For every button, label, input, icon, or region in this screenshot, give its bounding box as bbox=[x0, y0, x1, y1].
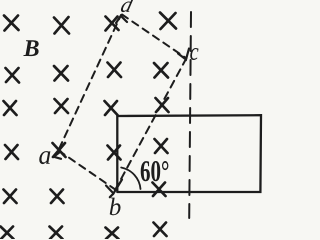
dashed side a-d bbox=[59, 15, 121, 149]
field cross row6 col4 bbox=[154, 223, 167, 237]
field cross row4 col4 bbox=[155, 139, 168, 153]
arrowhead at a bbox=[54, 152, 61, 159]
field cross row3 col1 bbox=[4, 101, 17, 115]
field cross row2 col1 bbox=[6, 68, 20, 83]
arrowhead at d bbox=[116, 16, 127, 23]
field cross row2 col2 bbox=[54, 66, 68, 81]
field cross row1 col3 bbox=[106, 17, 119, 31]
field cross row1 col4 bbox=[160, 13, 176, 30]
field cross row6 col1 bbox=[1, 227, 14, 240]
field cross row4 col2 (point a) bbox=[53, 143, 66, 157]
arrowhead at b bbox=[106, 180, 122, 198]
dashed side c-b bbox=[114, 58, 187, 192]
field cross row2 col4 bbox=[154, 63, 168, 78]
field cross row6 col2 bbox=[50, 227, 63, 240]
rectangular frame (solid) bbox=[117, 115, 261, 192]
label d bbox=[120, 0, 134, 12]
field cross row1 col2 bbox=[54, 17, 69, 34]
label B bbox=[23, 40, 38, 56]
field cross row5 col1 bbox=[4, 190, 17, 204]
field cross row4 col1 bbox=[5, 145, 18, 159]
field cross row1 col1 bbox=[4, 16, 19, 31]
field cross row5 col4 (on frame bottom edge) bbox=[153, 183, 166, 197]
field cross row3 col3 bbox=[105, 101, 118, 115]
angle label 60deg bbox=[141, 161, 150, 181]
label c bbox=[190, 48, 198, 60]
60 degree arc at b bbox=[121, 168, 140, 190]
field cross row5 col2 bbox=[51, 190, 64, 204]
field cross row4 col3 (on frame edge) bbox=[108, 146, 121, 160]
field boundary dashed line bbox=[189, 12, 191, 218]
field cross row3 col4 bbox=[156, 98, 169, 112]
dashed side d-c bbox=[122, 15, 186, 59]
label b bbox=[110, 198, 121, 216]
label a bbox=[39, 151, 50, 164]
field cross row6 col3 bbox=[106, 228, 119, 240]
field cross row2 col3 bbox=[108, 63, 122, 78]
field cross row3 col2 bbox=[55, 99, 69, 113]
arrowhead at c bbox=[178, 49, 189, 60]
dashed side b-a bbox=[60, 152, 116, 191]
